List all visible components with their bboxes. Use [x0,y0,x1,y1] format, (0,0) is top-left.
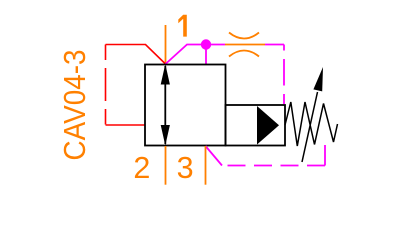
flow double arrow shaft [164,66,166,144]
magenta envelope: right lower vertical [324,145,326,166]
adjustment arrow head [313,67,323,91]
restriction upper arc [229,33,259,39]
port label 1 [178,15,187,37]
magenta envelope: bottom horizontal (dashed) [225,165,325,167]
flow arrow head up [161,64,170,85]
node (junction dot) [201,39,211,49]
wire: magenta pilot line from restriction to envelope corner [265,44,284,46]
svg-text:CAV04-3: CAV04-3 [57,50,92,161]
red dashed pilot envelope: top horizontal and diagonal [106,45,166,65]
wire: port 2 line [165,146,167,185]
svg-text:3: 3 [177,151,194,185]
restriction lower arc [229,51,259,57]
magenta envelope: diagonal from port 3 [206,146,223,166]
magenta envelope right vertical (dashed) [283,45,285,105]
flow arrow head down [161,125,170,146]
check poppet triangle [257,106,279,145]
valve main body rectangle [145,65,226,146]
pilot stage rectangle [226,105,286,146]
wire: port 1 line [165,25,167,64]
wire: magenta pilot line from port 1 to node [166,45,226,65]
wire: magenta drop from node to valve body [205,45,207,66]
svg-text:2: 2 [133,151,150,185]
red dashed pilot envelope: bottom horizontal [106,124,146,126]
orifice line through restriction [225,44,265,46]
wire: port 3 line [205,146,207,185]
red dashed pilot envelope: left vertical (dashed) [105,45,107,126]
adjustment arrow shaft [302,92,318,162]
spring [285,102,338,146]
